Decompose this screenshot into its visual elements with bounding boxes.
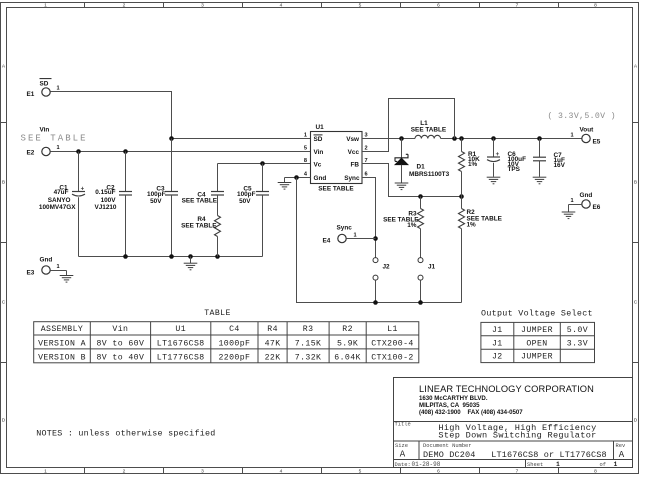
jumper J1	[418, 229, 436, 303]
wire output net: L1 to E5	[441, 138, 582, 140]
svg-text:3: 3	[201, 3, 204, 9]
junction: ground symbol on ground bus	[188, 254, 193, 259]
svg-text:E1: E1	[27, 91, 35, 98]
svg-text:Vcc: Vcc	[348, 149, 360, 156]
svg-text:3: 3	[365, 133, 368, 139]
svg-text:5: 5	[359, 469, 362, 475]
svg-text:1: 1	[571, 133, 574, 139]
svg-text:22K: 22K	[265, 353, 281, 362]
ground: C7	[533, 177, 547, 184]
svg-text:DEMO DC204 LT1676CS8 or LT17: DEMO DC204 LT1676CS8 or LT1776CS8	[423, 450, 607, 460]
junction: R4 on ground bus	[215, 254, 220, 259]
terminal E1 (SD input)	[27, 79, 60, 98]
svg-text:Vc: Vc	[314, 162, 322, 169]
ground: E6	[562, 205, 576, 219]
svg-text:Title: Title	[395, 422, 411, 428]
svg-text:50V: 50V	[239, 198, 251, 205]
wire SD net: E1 to U1 pin 1	[50, 92, 310, 139]
wire U1 pin 4 Gnd stub	[285, 177, 311, 179]
svg-text:C: C	[634, 300, 638, 306]
svg-text:(408) 432-1900 FAX (408) 43: (408) 432-1900 FAX (408) 434-0507	[419, 409, 523, 416]
svg-text:VERSION A: VERSION A	[38, 339, 86, 348]
svg-text:J2: J2	[383, 264, 391, 271]
svg-text:E2: E2	[27, 150, 35, 157]
svg-text:Sync: Sync	[337, 225, 353, 232]
svg-text:SEE TABLE: SEE TABLE	[21, 133, 88, 143]
junction: ground-net riser on pin 4 stub	[294, 175, 299, 180]
junction: C6 on output node	[491, 136, 496, 141]
svg-text:J1: J1	[492, 326, 503, 335]
svg-text:1: 1	[304, 133, 307, 139]
assembly options table	[34, 322, 419, 363]
svg-text:MILPITAS, CA 95035: MILPITAS, CA 95035	[419, 402, 480, 409]
svg-text:NOTES : unless otherwise speci: NOTES : unless otherwise specified	[36, 429, 215, 439]
capacitor C6 100uF 10V TPS	[487, 139, 526, 177]
wire Vin bus: E2 to U1 pin 5	[50, 151, 310, 153]
svg-text:3: 3	[201, 469, 204, 475]
svg-text:6: 6	[365, 171, 368, 177]
svg-text:JUMPER: JUMPER	[521, 353, 553, 362]
wire Vc net: C4 to U1 pin 8	[218, 163, 311, 165]
svg-text:1%: 1%	[407, 222, 417, 229]
svg-text:A: A	[619, 450, 625, 460]
svg-text:LT1676CS8: LT1676CS8	[157, 339, 205, 348]
svg-text:C: C	[2, 300, 6, 306]
svg-text:8: 8	[594, 3, 597, 9]
svg-text:0.15uF: 0.15uF	[95, 189, 115, 196]
svg-text:5: 5	[304, 145, 307, 151]
junction: R1/R2 on FB net	[459, 194, 464, 199]
svg-text:5: 5	[359, 3, 362, 9]
wire Vcc boost loop: U1 pin 2 over L1	[362, 99, 455, 152]
ground: U1 pin 4	[278, 178, 292, 190]
junction: C1 on Vin bus	[76, 149, 81, 154]
svg-text:U1: U1	[175, 325, 186, 334]
output voltage select table	[481, 309, 595, 363]
terminal E6 (Gnd)	[569, 192, 601, 211]
svg-text:D: D	[2, 418, 6, 424]
wire Sync net: U1 pin 6 down to J2	[362, 178, 376, 258]
svg-text:6: 6	[437, 3, 440, 9]
svg-text:+: +	[81, 187, 85, 193]
svg-text:8V to 40V: 8V to 40V	[96, 353, 144, 362]
wire input ground bus	[79, 256, 263, 258]
resistor R4 SEE TABLE	[181, 216, 220, 257]
svg-text:1: 1	[57, 86, 60, 92]
svg-text:7: 7	[516, 3, 519, 9]
svg-text:Document Number: Document Number	[423, 443, 472, 449]
svg-text:4: 4	[280, 3, 283, 9]
svg-text:A: A	[400, 450, 406, 460]
ground: input bus	[184, 257, 198, 270]
svg-text:SEE TABLE: SEE TABLE	[318, 186, 354, 193]
svg-text:B: B	[634, 180, 637, 186]
junction: R1 on output node	[459, 136, 464, 141]
svg-text:47K: 47K	[265, 339, 281, 348]
svg-text:1: 1	[57, 145, 60, 151]
svg-text:CTX200-4: CTX200-4	[371, 339, 414, 348]
svg-text:7.32K: 7.32K	[295, 353, 322, 362]
capacitor C2 0.15uF 100V VJ1210	[94, 152, 132, 257]
svg-text:R3: R3	[303, 325, 314, 334]
svg-text:Sync: Sync	[344, 175, 360, 182]
resistor R2 SEE TABLE 1%	[459, 197, 503, 303]
junction: SD wire / C3 branch	[169, 136, 174, 141]
capacitor C5 100pF 50V	[237, 164, 269, 257]
svg-text:SEE TABLE: SEE TABLE	[411, 127, 447, 134]
IC U1 LT1676CS8/LT1776CS8	[304, 124, 368, 193]
terminal E5 (Vout)	[571, 127, 601, 146]
svg-text:E6: E6	[593, 204, 601, 211]
svg-text:7: 7	[516, 469, 519, 475]
svg-text:1: 1	[57, 264, 60, 270]
ground: C6	[487, 177, 501, 184]
svg-text:Gnd: Gnd	[314, 175, 327, 182]
svg-text:1: 1	[571, 198, 574, 204]
svg-text:6.04K: 6.04K	[334, 353, 361, 362]
svg-text:E3: E3	[27, 270, 35, 277]
svg-text:JUMPER: JUMPER	[521, 326, 553, 335]
svg-text:1%: 1%	[468, 161, 478, 168]
svg-text:Vin: Vin	[314, 149, 324, 156]
svg-text:J1: J1	[492, 339, 503, 348]
svg-text:SEE TABLE: SEE TABLE	[181, 222, 217, 229]
junction: C2 on Vin bus	[123, 149, 128, 154]
svg-text:1630 McCARTHY BLVD.: 1630 McCARTHY BLVD.	[419, 395, 488, 402]
svg-text:VERSION B: VERSION B	[38, 353, 86, 362]
svg-text:Date:: Date:	[395, 462, 411, 468]
table title TABLE	[204, 309, 231, 318]
terminal E2 (Vin input)	[21, 127, 88, 157]
svg-text:2200pF: 2200pF	[218, 353, 250, 362]
ground: D1 anode	[395, 183, 409, 190]
svg-text:8V to 60V: 8V to 60V	[96, 339, 144, 348]
svg-text:( 3.3V,5.0V ): ( 3.3V,5.0V )	[548, 111, 616, 121]
junction: D1 on Vsw node	[399, 136, 404, 141]
terminal E3 (Gnd)	[27, 257, 67, 277]
svg-text:Output Voltage Select: Output Voltage Select	[481, 309, 593, 319]
capacitor C1 47uF SANYO	[39, 152, 85, 257]
svg-text:1: 1	[556, 461, 560, 468]
svg-text:4: 4	[280, 469, 283, 475]
svg-text:2: 2	[123, 469, 126, 475]
svg-text:16V: 16V	[554, 162, 566, 169]
svg-text:7.15K: 7.15K	[295, 339, 322, 348]
svg-text:L1: L1	[387, 325, 398, 334]
svg-text:5.0V: 5.0V	[567, 326, 588, 335]
svg-text:1: 1	[44, 469, 47, 475]
svg-text:D: D	[634, 418, 638, 424]
svg-text:8: 8	[304, 158, 307, 164]
svg-text:100MV47GX: 100MV47GX	[39, 204, 76, 211]
junction: R3 on FB net	[418, 194, 423, 199]
svg-text:SEE TABLE: SEE TABLE	[182, 198, 218, 205]
jumper J2	[373, 258, 390, 303]
svg-text:CTX100-2: CTX100-2	[371, 353, 414, 362]
junction: J2 on ground net	[373, 300, 378, 305]
svg-text:Gnd: Gnd	[580, 192, 593, 199]
junction: C7 on output node	[537, 136, 542, 141]
svg-text:Gnd: Gnd	[40, 257, 53, 264]
junction: C2 on ground bus	[123, 254, 128, 259]
svg-text:B: B	[2, 180, 5, 186]
svg-text:Vout: Vout	[580, 127, 595, 134]
svg-text:ASSEMBLY: ASSEMBLY	[41, 325, 84, 334]
svg-text:6: 6	[437, 469, 440, 475]
svg-text:8: 8	[594, 469, 597, 475]
title block	[394, 378, 633, 469]
svg-text:1%: 1%	[467, 222, 477, 229]
svg-text:E5: E5	[593, 139, 601, 146]
svg-text:J2: J2	[492, 353, 503, 362]
junction: J1 on ground net	[418, 300, 423, 305]
svg-text:50V: 50V	[150, 198, 162, 205]
svg-text:+: +	[496, 152, 500, 158]
svg-text:TPS: TPS	[508, 166, 521, 173]
capacitor C4 SEE TABLE	[182, 164, 224, 216]
svg-text:1: 1	[354, 233, 357, 239]
wire FB net: U1 pin 7 to divider	[362, 164, 462, 197]
svg-text:LT1776CS8: LT1776CS8	[157, 353, 205, 362]
diode D1 MBRS1100T3 (Schottky)	[395, 139, 450, 183]
svg-text:TABLE: TABLE	[204, 309, 231, 318]
capacitor C7 1uF 16V	[533, 139, 566, 177]
junction: C5 on Vc wire	[260, 161, 265, 166]
capacitor C3 100pF 50V (on SD line)	[147, 139, 178, 257]
terminal E4 (Sync)	[323, 225, 376, 245]
svg-text:SD: SD	[314, 136, 323, 143]
svg-text:SD: SD	[40, 81, 49, 88]
ground: E3	[60, 271, 74, 283]
svg-text:LINEAR TECHNOLOGY CORPORATION: LINEAR TECHNOLOGY CORPORATION	[419, 384, 594, 394]
svg-text:J1: J1	[428, 264, 436, 271]
svg-text:VJ1210: VJ1210	[94, 204, 116, 211]
resistor R1 10K 1%	[459, 139, 481, 197]
svg-text:OPEN: OPEN	[526, 339, 547, 348]
svg-text:E4: E4	[323, 238, 331, 245]
svg-text:FB: FB	[350, 162, 359, 169]
wire Vsw: U1 pin 3 to L1	[362, 138, 415, 140]
svg-text:3.3V: 3.3V	[567, 339, 588, 348]
svg-text:Rev: Rev	[616, 443, 626, 449]
svg-text:2: 2	[123, 3, 126, 9]
svg-text:of: of	[600, 462, 606, 468]
notes	[36, 429, 215, 439]
resistor R3 SEE TABLE 1%	[383, 197, 423, 230]
svg-text:1: 1	[614, 461, 618, 468]
junction: C3 on ground bus	[169, 254, 174, 259]
label: output voltage options	[548, 111, 616, 121]
junction: E4 on Sync wire	[373, 236, 378, 241]
junction: boost loop on output node	[452, 136, 457, 141]
svg-text:2: 2	[365, 145, 368, 151]
svg-text:R4: R4	[267, 325, 278, 334]
svg-text:Vin: Vin	[112, 324, 128, 334]
svg-text:47uF: 47uF	[54, 189, 69, 196]
svg-text:01-28-98: 01-28-98	[412, 461, 441, 468]
svg-text:C4: C4	[229, 325, 240, 334]
svg-text:5.9K: 5.9K	[337, 339, 358, 348]
svg-text:U1: U1	[316, 124, 325, 131]
svg-text:R2: R2	[342, 325, 353, 334]
wire ground net: pin 4 down and across to R2 bottom	[297, 178, 462, 303]
svg-text:1000pF: 1000pF	[218, 339, 250, 348]
svg-text:Step Down Switching Regulator: Step Down Switching Regulator	[438, 430, 596, 440]
svg-text:Sheet: Sheet	[527, 462, 543, 468]
svg-text:MBRS1100T3: MBRS1100T3	[409, 171, 450, 178]
svg-text:Vsw: Vsw	[346, 136, 359, 143]
svg-text:1: 1	[44, 3, 47, 9]
inductor L1 SEE TABLE	[411, 120, 447, 139]
svg-text:Size: Size	[395, 443, 408, 449]
svg-text:D1: D1	[417, 164, 426, 171]
